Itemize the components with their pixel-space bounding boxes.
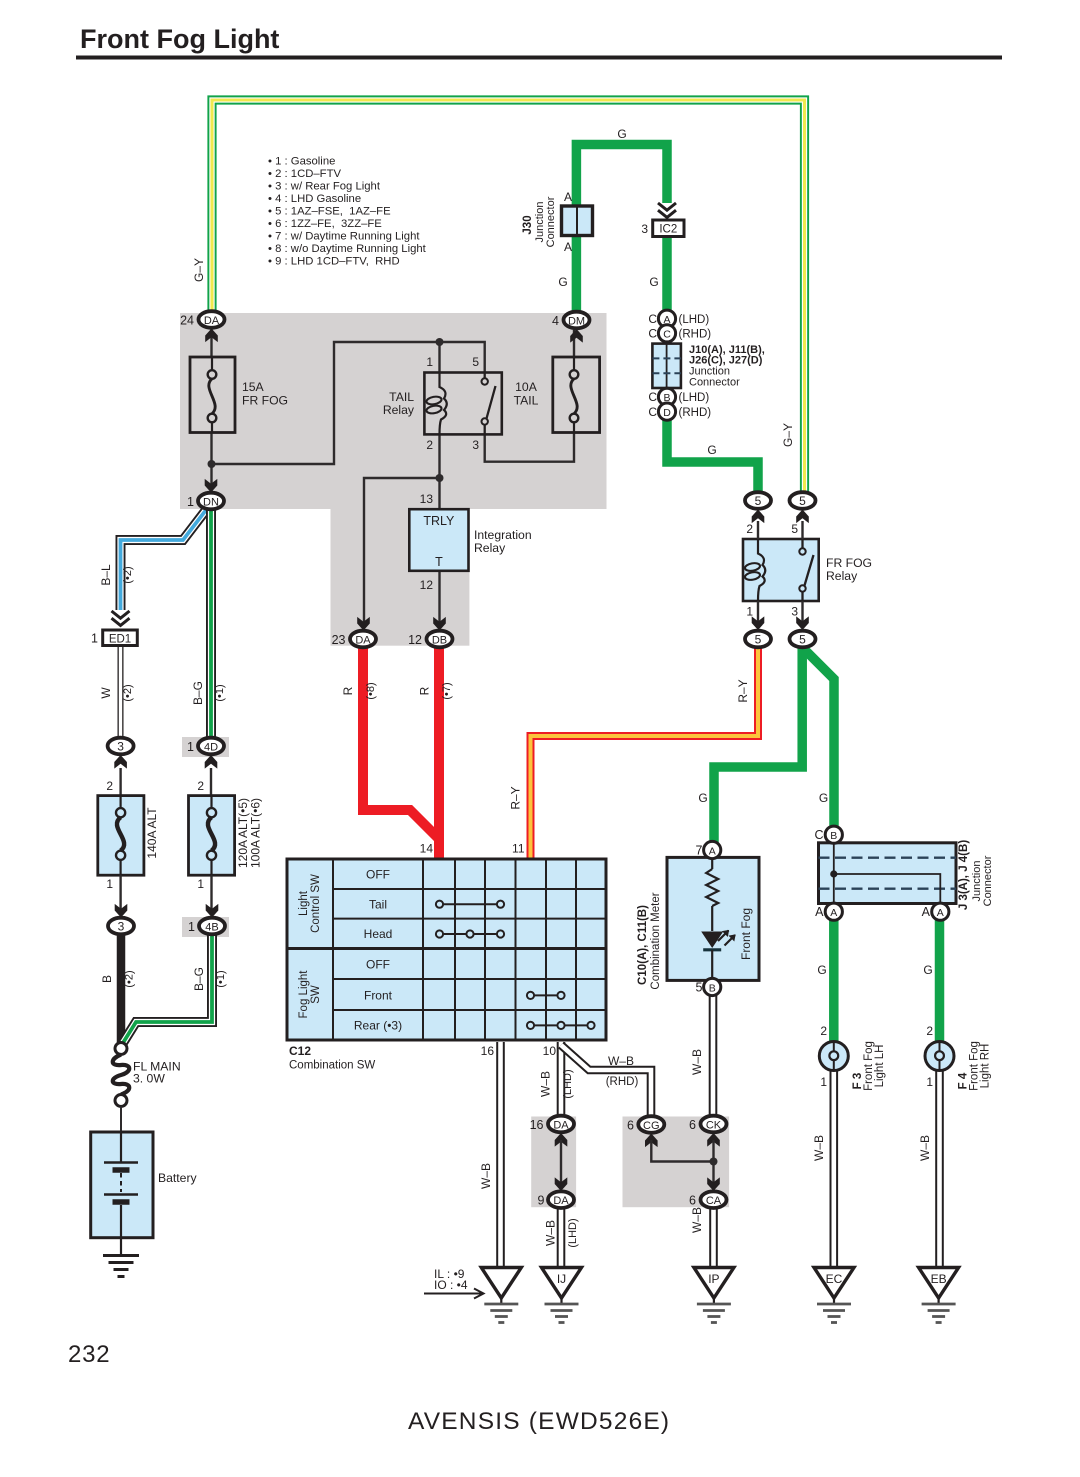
wire B-L from DN to ED1 bbox=[121, 510, 207, 610]
J30 junction connector bbox=[522, 127, 659, 289]
svg-text:B: B bbox=[830, 830, 837, 842]
gray relay block J/B top bbox=[180, 313, 607, 509]
svg-text:6: 6 bbox=[689, 1118, 696, 1132]
svg-text:Light: Light bbox=[298, 890, 310, 916]
svg-text:C: C bbox=[648, 327, 657, 341]
svg-text:A: A bbox=[564, 240, 572, 254]
svg-text:5: 5 bbox=[696, 981, 703, 995]
svg-text:7: 7 bbox=[696, 844, 703, 858]
arrow up into top 5 left bbox=[752, 510, 765, 524]
junction dot integration relay feed bbox=[436, 474, 444, 482]
svg-text:Battery: Battery bbox=[158, 1171, 198, 1185]
svg-text:A: A bbox=[830, 907, 837, 919]
bottom connector 5 right (relay pin3) bbox=[790, 631, 816, 648]
svg-text:A: A bbox=[709, 845, 716, 857]
svg-text:(LHD): (LHD) bbox=[562, 1069, 574, 1098]
wire from 140A fuse to connector 3 bbox=[119, 875, 121, 910]
svg-text:(RHD): (RHD) bbox=[606, 1076, 639, 1088]
9 DA connector bbox=[548, 1191, 574, 1208]
svg-text:C: C bbox=[663, 329, 671, 341]
svg-text:1: 1 bbox=[926, 1075, 933, 1089]
connector 1 4D bbox=[198, 738, 224, 755]
gray patch connector 4B bbox=[182, 917, 229, 937]
svg-text:4D: 4D bbox=[204, 742, 218, 754]
wire R from 23 DA to C12 pin14 bbox=[363, 647, 439, 839]
wire W-B 6 CA to IP ground bbox=[709, 1207, 718, 1268]
svg-text:12: 12 bbox=[408, 633, 422, 647]
svg-text:(•1): (•1) bbox=[214, 684, 226, 701]
svg-text:Connector: Connector bbox=[689, 377, 740, 389]
svg-text:3: 3 bbox=[118, 920, 125, 934]
junction dot tail relay pin1 feed bbox=[436, 338, 444, 346]
C12 combination switch table bbox=[287, 842, 606, 1072]
svg-text:3: 3 bbox=[472, 438, 479, 452]
wire W-B front fog LH to EC ground bbox=[829, 1070, 838, 1268]
svg-text:• 9 : LHD 1CD–FTV, RHD: • 9 : LHD 1CD–FTV, RHD bbox=[268, 256, 400, 268]
svg-text:232: 232 bbox=[68, 1341, 110, 1368]
svg-text:W–B: W–B bbox=[544, 1220, 558, 1246]
junction dot below 15A fuse bbox=[208, 460, 216, 468]
svg-text:G: G bbox=[649, 275, 658, 289]
svg-text:5: 5 bbox=[472, 355, 479, 369]
wire FL MAIN to battery bbox=[120, 1107, 122, 1133]
svg-text:Fog Light: Fog Light bbox=[298, 970, 310, 1019]
svg-text:2: 2 bbox=[926, 1024, 933, 1038]
svg-text:1: 1 bbox=[106, 877, 113, 891]
svg-text:(•8): (•8) bbox=[365, 682, 377, 699]
svg-text:• 7 : w/ Daytime Running Light: • 7 : w/ Daytime Running Light bbox=[268, 231, 420, 243]
6 CA connector bbox=[701, 1191, 727, 1208]
IC2 chevron bbox=[658, 203, 676, 217]
svg-text:Combination SW: Combination SW bbox=[289, 1060, 375, 1072]
svg-text:DN: DN bbox=[203, 497, 219, 509]
svg-text:1: 1 bbox=[820, 1075, 827, 1089]
svg-text:B: B bbox=[709, 982, 716, 994]
svg-text:SW: SW bbox=[310, 985, 322, 1004]
svg-text:G: G bbox=[923, 963, 932, 977]
wire G relay pin3 branch to J3 connector bbox=[803, 648, 834, 827]
svg-text:TRLY: TRLY bbox=[423, 514, 455, 528]
6 CG connector bbox=[638, 1116, 664, 1133]
wire G relay pin3 to combination meter bbox=[714, 648, 802, 843]
svg-text:C: C bbox=[648, 405, 657, 419]
svg-text:10: 10 bbox=[543, 1044, 557, 1058]
svg-text:CA: CA bbox=[706, 1195, 722, 1207]
svg-text:DA: DA bbox=[204, 315, 220, 327]
svg-text:5: 5 bbox=[755, 633, 762, 647]
DA to DA link wire bbox=[560, 1140, 562, 1185]
svg-text:15A: 15A bbox=[242, 380, 265, 394]
svg-text:A: A bbox=[922, 905, 931, 919]
junction dot CK-CA bbox=[710, 1158, 718, 1166]
svg-text:Front Fog: Front Fog bbox=[739, 908, 753, 960]
svg-text:16: 16 bbox=[481, 1044, 495, 1058]
120A ALT fuse bbox=[189, 796, 263, 876]
svg-text:DB: DB bbox=[432, 635, 447, 647]
battery ground bbox=[103, 1238, 139, 1277]
svg-text:J30: J30 bbox=[522, 215, 534, 234]
4 DM connector bbox=[564, 312, 590, 329]
svg-text:IP: IP bbox=[708, 1272, 719, 1286]
svg-text:W–B: W–B bbox=[918, 1135, 932, 1161]
svg-text:(•2): (•2) bbox=[122, 566, 134, 583]
svg-text:(•2): (•2) bbox=[124, 970, 136, 987]
svg-text:3: 3 bbox=[117, 740, 124, 754]
svg-text:2: 2 bbox=[197, 779, 204, 793]
svg-text:W–B: W–B bbox=[690, 1049, 704, 1075]
svg-text:23: 23 bbox=[332, 633, 346, 647]
svg-text:1: 1 bbox=[91, 632, 98, 646]
svg-text:W–B: W–B bbox=[479, 1163, 493, 1189]
svg-text:DM: DM bbox=[568, 316, 585, 328]
svg-text:1: 1 bbox=[187, 495, 194, 509]
svg-text:Connector: Connector bbox=[982, 855, 994, 906]
svg-text:2: 2 bbox=[746, 522, 753, 536]
wire G IC2 down to junction connector bbox=[662, 236, 672, 311]
svg-text:• 1 : Gasoline: • 1 : Gasoline bbox=[268, 156, 335, 168]
svg-text:CG: CG bbox=[643, 1120, 660, 1132]
svg-text:G: G bbox=[558, 275, 567, 289]
svg-text:1: 1 bbox=[197, 877, 204, 891]
arrow up into top 5 right bbox=[796, 510, 809, 524]
svg-text:W: W bbox=[99, 687, 113, 699]
LED front fog indicator bbox=[701, 932, 723, 949]
ground IJ bbox=[542, 1268, 582, 1323]
svg-text:3: 3 bbox=[641, 222, 648, 236]
svg-text:1: 1 bbox=[746, 605, 753, 619]
gray patch DA-DA connectors bbox=[531, 1117, 576, 1208]
wire R from 12 DB to C12 pin14 bbox=[434, 647, 444, 858]
wire from 120A fuse to connector 4B bbox=[210, 875, 212, 910]
wire G J3 to front fog light RH bbox=[935, 920, 945, 1042]
svg-text:16: 16 bbox=[530, 1118, 544, 1132]
svg-text:• 8 : w/o Daytime Running Ligh: • 8 : w/o Daytime Running Light bbox=[268, 243, 427, 255]
svg-text:Connector: Connector bbox=[545, 196, 557, 247]
svg-text:Front Fog Light: Front Fog Light bbox=[80, 24, 279, 54]
wire B from connector 3 to FL MAIN node bbox=[117, 934, 126, 1046]
arrow down into bottom 5 left bbox=[752, 616, 765, 630]
svg-text:B–G: B–G bbox=[192, 967, 206, 991]
ground IL/IO bbox=[481, 1268, 521, 1323]
TAIL relay bbox=[383, 355, 502, 452]
svg-text:5: 5 bbox=[799, 494, 806, 508]
svg-text:4B: 4B bbox=[205, 922, 218, 934]
svg-text:DA: DA bbox=[553, 1120, 569, 1132]
svg-text:(RHD): (RHD) bbox=[679, 407, 712, 419]
svg-text:(RHD): (RHD) bbox=[679, 329, 712, 341]
connector 3 (battery branch) bbox=[108, 918, 134, 935]
svg-text:T: T bbox=[435, 555, 443, 569]
svg-text:W–B: W–B bbox=[812, 1135, 826, 1161]
contact row Front bbox=[527, 992, 565, 999]
wire W-B (RHD) C12 pin10 branch to 6 CG bbox=[561, 1045, 651, 1116]
wire G-Y main feed bbox=[212, 100, 805, 494]
svg-text:1: 1 bbox=[188, 920, 195, 934]
svg-text:OFF: OFF bbox=[366, 868, 390, 882]
svg-text:DA: DA bbox=[553, 1195, 569, 1207]
svg-text:G: G bbox=[817, 963, 826, 977]
ground EC bbox=[814, 1268, 854, 1323]
svg-text:Relay: Relay bbox=[826, 569, 858, 583]
wire B-G from DN to 4D bbox=[206, 510, 216, 738]
svg-text:IJ: IJ bbox=[557, 1272, 566, 1286]
svg-text:R: R bbox=[341, 686, 355, 695]
FR FOG relay bbox=[743, 521, 872, 624]
svg-text:Integration: Integration bbox=[474, 528, 532, 542]
wire to 120A ALT fuse bbox=[210, 768, 212, 796]
svg-text:(LHD): (LHD) bbox=[567, 1218, 579, 1247]
wire W-B C12 pin16 to ground bbox=[496, 1042, 505, 1268]
front fog light LH bulb F3 bbox=[812, 1024, 886, 1161]
svg-text:Control SW: Control SW bbox=[310, 874, 322, 933]
svg-text:AVENSIS (EWD526E): AVENSIS (EWD526E) bbox=[408, 1408, 670, 1435]
svg-text:3: 3 bbox=[791, 605, 798, 619]
svg-text:Relay: Relay bbox=[474, 541, 506, 555]
svg-text:(•2): (•2) bbox=[122, 684, 134, 701]
svg-text:A: A bbox=[815, 905, 824, 919]
svg-text:IO : •4: IO : •4 bbox=[434, 1278, 468, 1292]
16 DA connector bbox=[548, 1116, 574, 1133]
svg-text:W–B: W–B bbox=[608, 1054, 634, 1068]
svg-text:DA: DA bbox=[355, 635, 371, 647]
svg-text:FR FOG: FR FOG bbox=[826, 556, 872, 570]
svg-text:Light LH: Light LH bbox=[874, 1045, 886, 1088]
svg-text:• 6 : 1ZZ–FE, 3ZZ–FE: • 6 : 1ZZ–FE, 3ZZ–FE bbox=[268, 218, 382, 230]
top connector 5 right (relay pin5) bbox=[790, 492, 816, 509]
svg-text:EC: EC bbox=[826, 1272, 843, 1286]
connector 1 4B bbox=[199, 918, 225, 935]
svg-text:G: G bbox=[819, 791, 828, 805]
svg-text:(LHD): (LHD) bbox=[679, 392, 710, 404]
svg-text:5: 5 bbox=[791, 522, 798, 536]
svg-text:G: G bbox=[617, 127, 626, 141]
svg-text:G: G bbox=[698, 791, 707, 805]
23 DA connector bbox=[350, 631, 376, 648]
svg-text:D: D bbox=[663, 407, 671, 419]
svg-text:24: 24 bbox=[180, 314, 194, 328]
wire G J30 down to DM bbox=[572, 234, 582, 314]
svg-text:IC2: IC2 bbox=[659, 224, 677, 236]
12 DB connector bbox=[427, 631, 453, 648]
svg-text:R–Y: R–Y bbox=[736, 679, 750, 702]
svg-text:10A: 10A bbox=[515, 380, 538, 394]
svg-text:Head: Head bbox=[364, 927, 393, 941]
resistor bbox=[706, 869, 718, 906]
wire G J3 to front fog light LH bbox=[829, 920, 839, 1042]
FL MAIN fusible link bbox=[113, 1043, 181, 1107]
contact row Head bbox=[436, 930, 504, 937]
svg-text:• 4 : LHD Gasoline: • 4 : LHD Gasoline bbox=[268, 193, 361, 205]
wire B-G from 4B to FL MAIN node bbox=[121, 934, 212, 1046]
wire R-Y relay pin1 to C12 pin11 bbox=[531, 648, 759, 858]
svg-text:3. 0W: 3. 0W bbox=[133, 1072, 165, 1086]
1 DN connector bbox=[198, 493, 224, 510]
svg-text:4: 4 bbox=[552, 314, 559, 328]
svg-text:TAIL: TAIL bbox=[514, 394, 539, 408]
svg-text:W–B: W–B bbox=[690, 1207, 704, 1233]
svg-text:100A ALT(•6): 100A ALT(•6) bbox=[249, 798, 263, 868]
svg-text:ED1: ED1 bbox=[109, 634, 131, 646]
svg-text:C: C bbox=[648, 390, 657, 404]
svg-text:(•7): (•7) bbox=[441, 682, 453, 699]
gray relay block lower extension bbox=[331, 509, 470, 646]
svg-text:FR FOG: FR FOG bbox=[242, 394, 288, 408]
IC2 box bbox=[641, 220, 684, 237]
svg-text:A: A bbox=[937, 907, 944, 919]
wire W-B C12 pin10 to 16 DA bbox=[557, 1042, 566, 1116]
svg-text:1: 1 bbox=[187, 740, 194, 754]
svg-text:Light RH: Light RH bbox=[980, 1044, 992, 1089]
svg-text:B–L: B–L bbox=[99, 564, 113, 586]
svg-text:Tail: Tail bbox=[369, 898, 387, 912]
wire W from ED1 to alternator fuse bbox=[118, 646, 124, 738]
gray patch connector 4D bbox=[182, 737, 229, 757]
connector 3 (alternator top) bbox=[108, 738, 134, 755]
J10 J11 J26 J27 junction connector bbox=[648, 310, 795, 457]
svg-text:W–B: W–B bbox=[539, 1071, 553, 1097]
CG to CA link wire bbox=[651, 1140, 713, 1162]
contact row Tail bbox=[436, 901, 504, 908]
wire G J30 up over to IC2 bbox=[576, 145, 667, 208]
thin wires inside J/B bbox=[212, 328, 575, 632]
24 DA connector bbox=[199, 311, 225, 328]
svg-text:6: 6 bbox=[627, 1119, 634, 1133]
svg-text:(•1): (•1) bbox=[215, 970, 227, 987]
battery bbox=[91, 1132, 198, 1238]
bottom connector 5 left (relay pin1) bbox=[745, 631, 771, 648]
svg-text:6: 6 bbox=[689, 1194, 696, 1208]
svg-text:(LHD): (LHD) bbox=[679, 314, 710, 326]
svg-text:• 3 : w/ Rear Fog Light: • 3 : w/ Rear Fog Light bbox=[268, 181, 381, 193]
contact row Rear bbox=[527, 1022, 595, 1029]
svg-text:G–Y: G–Y bbox=[192, 258, 206, 282]
svg-text:B: B bbox=[100, 975, 114, 983]
10A TAIL fuse bbox=[514, 357, 600, 433]
svg-text:9: 9 bbox=[538, 1194, 545, 1208]
svg-text:Relay: Relay bbox=[383, 403, 415, 417]
svg-text:5: 5 bbox=[799, 633, 806, 647]
svg-text:5: 5 bbox=[755, 494, 762, 508]
J3 J4 junction connector bbox=[814, 826, 994, 920]
ED1 box bbox=[103, 630, 138, 646]
svg-text:OFF: OFF bbox=[366, 958, 390, 972]
front fog light RH bulb F4 bbox=[918, 1024, 992, 1161]
140A ALT fuse bbox=[98, 796, 159, 876]
top connector 5 left (relay pin2) bbox=[745, 492, 771, 509]
svg-text:• 5 : 1AZ–FSE, 1AZ–FE: • 5 : 1AZ–FSE, 1AZ–FE bbox=[268, 206, 391, 218]
svg-text:14: 14 bbox=[420, 842, 434, 856]
wire W-B combination meter to 6 CK bbox=[709, 995, 718, 1116]
svg-text:1: 1 bbox=[426, 355, 433, 369]
svg-text:Combination Meter: Combination Meter bbox=[650, 892, 662, 989]
svg-text:Front: Front bbox=[364, 989, 393, 1003]
6 CK connector bbox=[701, 1116, 727, 1133]
15A FR FOG fuse bbox=[190, 357, 288, 433]
wire W-B 9 DA to IJ ground bbox=[557, 1207, 566, 1268]
svg-text:C: C bbox=[814, 828, 823, 842]
svg-text:TAIL: TAIL bbox=[389, 390, 414, 404]
ground IP bbox=[694, 1268, 734, 1323]
svg-text:G–Y: G–Y bbox=[781, 423, 795, 447]
ED1 chevron bbox=[112, 611, 130, 625]
svg-text:C: C bbox=[648, 312, 657, 326]
svg-text:12: 12 bbox=[420, 578, 434, 592]
svg-text:2: 2 bbox=[820, 1024, 827, 1038]
svg-text:B–G: B–G bbox=[191, 681, 205, 705]
svg-text:2: 2 bbox=[426, 438, 433, 452]
svg-text:140A ALT: 140A ALT bbox=[145, 807, 159, 859]
svg-text:2: 2 bbox=[106, 779, 113, 793]
svg-text:R: R bbox=[418, 686, 432, 695]
gray patch CG-CK-CA connectors bbox=[623, 1117, 730, 1208]
ground EB bbox=[919, 1268, 959, 1323]
svg-text:C12: C12 bbox=[289, 1044, 311, 1058]
svg-text:• 2 : 1CD–FTV: • 2 : 1CD–FTV bbox=[268, 168, 341, 180]
svg-text:EB: EB bbox=[931, 1272, 947, 1286]
integration relay TRLY box bbox=[409, 492, 531, 592]
arrow to ground bbox=[424, 1289, 484, 1299]
svg-text:C10(A), C11(B): C10(A), C11(B) bbox=[637, 905, 649, 985]
svg-text:J 3(A), J 4(B): J 3(A), J 4(B) bbox=[958, 840, 970, 910]
wire W-B front fog RH to EB ground bbox=[935, 1070, 944, 1268]
combination meter C10 C11 bbox=[637, 841, 759, 995]
svg-text:CK: CK bbox=[706, 1120, 722, 1132]
CK to CA link wire bbox=[712, 1140, 714, 1185]
svg-text:Rear (•3): Rear (•3) bbox=[354, 1019, 402, 1033]
svg-text:13: 13 bbox=[420, 492, 434, 506]
svg-text:G: G bbox=[707, 443, 716, 457]
title rule bbox=[76, 56, 1002, 60]
svg-text:A: A bbox=[564, 190, 572, 204]
arrow down into bottom 5 right bbox=[796, 616, 809, 630]
svg-text:R–Y: R–Y bbox=[509, 786, 523, 809]
wire to 140A ALT fuse bbox=[119, 768, 121, 796]
svg-text:11: 11 bbox=[512, 842, 525, 856]
wire G junction connector to FR FOG relay pin2 bbox=[667, 419, 758, 493]
